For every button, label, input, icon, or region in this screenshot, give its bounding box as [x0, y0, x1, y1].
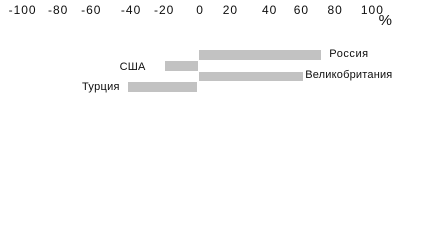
bar Турция -40% [128, 82, 197, 92]
tick -80 [48, 4, 68, 16]
tick -40 [121, 4, 141, 16]
tick -60 [81, 4, 101, 16]
bar Россия +70% [199, 50, 321, 60]
label США [120, 62, 146, 73]
tick 20 [223, 4, 238, 16]
bar США -20% [165, 61, 198, 71]
bar Великобритания +60% [199, 72, 303, 82]
label Великобритания [305, 70, 392, 81]
tick -20 [154, 4, 174, 16]
label Россия [329, 49, 368, 60]
tick 80 [328, 4, 343, 16]
label Турция [82, 82, 120, 93]
tick 60 [294, 4, 309, 16]
tick -100 [9, 4, 37, 16]
tick 40 [262, 4, 277, 16]
tick 100 [361, 4, 384, 16]
tick 0 [196, 4, 204, 16]
unit percent [379, 13, 392, 28]
